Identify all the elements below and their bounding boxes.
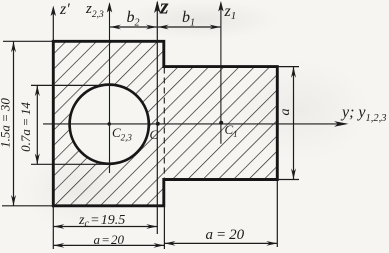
extension line circle top [31, 84, 109, 86]
extension line circle bottom [31, 163, 109, 165]
svg-text:a: a [278, 109, 293, 116]
extension line bottom x=53.3 [52, 206, 54, 249]
svg-text:1.5a = 30: 1.5a = 30 [0, 98, 13, 148]
extension line top-left (top edge) [3, 40, 53, 42]
arrow of y axis [334, 121, 349, 127]
arrow of z axis [154, 1, 160, 14]
extension line bottom-left (bottom edge) [2, 205, 53, 207]
axis y (horizontal) [43, 123, 346, 125]
dimension b1 [158, 26, 221, 28]
centroid dot C [156, 122, 160, 126]
arrow of z1 axis [218, 1, 223, 12]
centroid dot C2,3 [107, 122, 111, 126]
axis z1 [220, 3, 222, 144]
svg-text:a = 20: a = 20 [94, 232, 125, 247]
svg-text:b1: b1 [182, 9, 195, 29]
dimension b2 [110, 26, 157, 28]
dimension a=20 (bottom left) [54, 244, 165, 246]
axis z2,3 [109, 4, 111, 173]
extension line bottom x=277.3 [276, 180, 278, 248]
axis z (central, bold) [156, 2, 158, 234]
dashed boundary between rectangles 2 and 1 [163, 68, 165, 179]
svg-text:z′: z′ [59, 1, 70, 18]
dimension a=20 (bottom right) [165, 242, 278, 244]
section body: composite shape with circular hole, hatched [53, 41, 277, 206]
svg-text:z1: z1 [224, 3, 237, 22]
svg-text:a = 20: a = 20 [206, 227, 245, 243]
extension line right top [277, 66, 299, 68]
svg-text:b2: b2 [127, 9, 140, 29]
dimension 0.7a=14 (circle) [36, 85, 38, 164]
svg-text:zc = 19.5: zc = 19.5 [78, 213, 125, 230]
arrow of z2,3 axis [107, 2, 112, 13]
outline of composite section [53, 41, 277, 206]
scan smudges [120, 0, 280, 40]
extension line bottom x=164.4 [163, 206, 165, 249]
dimension 1.5a=30 (left outer) [13, 42, 15, 206]
circular hole outline [70, 85, 149, 164]
dimension a (right side vertical) [293, 67, 295, 180]
extension line right bottom [277, 179, 299, 181]
svg-text:C2,3: C2,3 [112, 125, 132, 143]
dimension zc=19.5 [54, 226, 158, 228]
svg-text:0.7a = 14: 0.7a = 14 [18, 102, 33, 152]
svg-text:z: z [159, 0, 169, 19]
svg-text:z2,3: z2,3 [85, 1, 104, 20]
axis z' (left edge) [52, 8, 54, 41]
arrow of z' axis [51, 6, 56, 17]
svg-text:y; y1,2,3: y; y1,2,3 [340, 104, 387, 124]
centroid dot C1 [219, 121, 223, 125]
svg-text:C: C [150, 127, 159, 142]
